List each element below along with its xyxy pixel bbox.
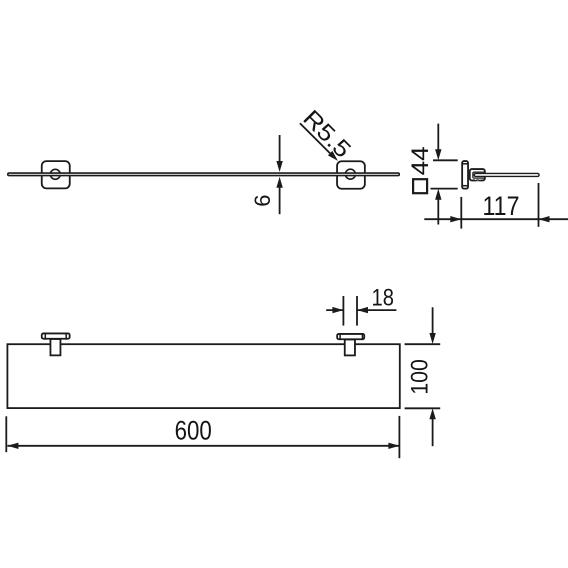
front view: wall bracket 2 (rounded square) (337, 161, 365, 189)
plan view: bracket 1 clamp stem (50, 339, 60, 355)
plan view: bracket 2 wall bar (337, 334, 364, 339)
dimension 100: upper dim segment (432, 307, 434, 335)
dimension square-44: lower arrowhead (up) (435, 189, 441, 200)
svg-text:6: 6 (250, 194, 275, 206)
plan view: bracket 1 wall bar (42, 333, 70, 338)
dimension 100: upper arrowhead (down) (429, 333, 435, 344)
dimension 117: left extension line (460, 197, 462, 229)
svg-text:600: 600 (175, 415, 212, 445)
dimension 100: bottom extension tick (405, 407, 441, 409)
dimension square-44: lower dim segment (437, 198, 439, 225)
dimension square-44: top extension line (433, 159, 458, 161)
dimension 117: right extension line (538, 183, 540, 227)
svg-text:117: 117 (483, 191, 520, 221)
svg-text:100: 100 (407, 359, 434, 395)
dimension 100: lower arrowhead (up) (429, 408, 435, 419)
dimension square-44: upper dim segment (437, 124, 439, 152)
square symbol of dimension 44 (413, 179, 427, 193)
svg-text:44: 44 (407, 146, 434, 175)
front view: bracket 2 screw circle (345, 169, 355, 179)
side view: set-screw notch in clamp bottom (475, 179, 480, 181)
side view: wall plate top cap line (462, 163, 468, 165)
side view: clamp glass slot (U shape open right) (473, 172, 485, 178)
leader line for R5.5 (300, 123, 333, 156)
dimension 600: right arrowhead (right) (388, 443, 399, 449)
dimension 18: right dim segment (357, 309, 396, 311)
dimension 18: left arrowhead (right) (332, 307, 343, 313)
side view: wall plate (462, 161, 468, 189)
svg-text:R5.5: R5.5 (298, 105, 356, 163)
side view: mounting clamp body (470, 169, 485, 180)
dimension 600: left arrowhead (left) (7, 443, 18, 449)
front view: bracket 1 screw circle (50, 169, 60, 179)
dimension 6: lower witness segment (279, 186, 281, 214)
side view: glass shelf profile (474, 173, 539, 176)
dimension square-44: bottom extension line (431, 188, 458, 190)
dimension 117: left arrowhead (right) (450, 216, 461, 222)
dimension 600: dimension line (7, 445, 399, 447)
plan view: shelf outline rectangle (7, 344, 399, 408)
dimension 100: top extension tick (405, 343, 441, 345)
dimension 18: left extension line (342, 296, 344, 326)
front view: wall bracket 1 (rounded square) (42, 161, 70, 188)
plan view: bracket 2 bar end cap lines (340, 333, 362, 340)
plan view: bracket 2 clamp stem (345, 340, 355, 356)
leader arrowhead (45 deg) (328, 151, 338, 161)
svg-text:18: 18 (372, 285, 394, 312)
dimension 6: lower arrowhead (up) (276, 177, 282, 188)
front view: glass shelf (long thin bar) (8, 173, 400, 176)
dimension 18: right arrowhead (left) (357, 307, 368, 313)
dimension 6: upper arrowhead (down) (276, 161, 282, 172)
dimension square-44: upper arrowhead (down) (435, 149, 441, 160)
dimension 117: dimension line (424, 218, 568, 220)
dimension 100: lower dim segment (432, 417, 434, 446)
dimension 6: upper witness segment (279, 135, 281, 163)
plan view: bracket 1 bar end cap lines (45, 333, 66, 340)
side view: wall plate bottom cap line (462, 185, 468, 187)
dimension 117: right arrowhead (left) (539, 216, 550, 222)
dimension 18: right extension line (356, 296, 358, 326)
dimension 600: right extension line (398, 416, 400, 458)
dimension 18: left dim segment (326, 309, 343, 311)
dimension 600: left extension line (5, 416, 7, 452)
